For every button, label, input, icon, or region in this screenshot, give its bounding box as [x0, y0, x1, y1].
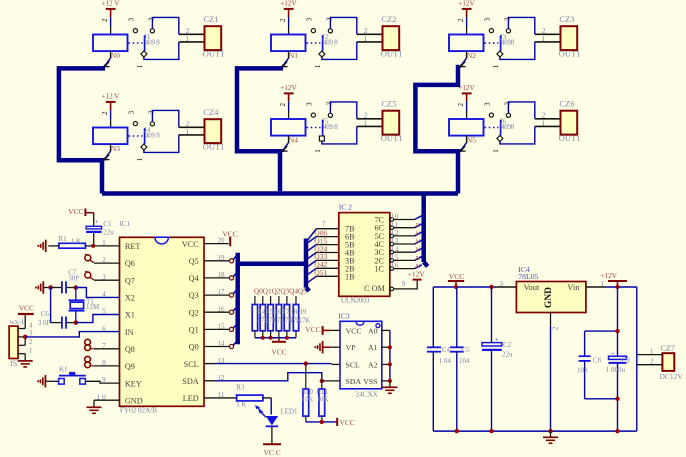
svg-text:+12V: +12V [458, 83, 475, 92]
svg-text:ULN2003: ULN2003 [341, 296, 370, 305]
svg-text:N1: N1 [289, 51, 298, 60]
svg-text:Q4: Q4 [189, 274, 199, 283]
svg-text:Q51: Q51 [314, 268, 327, 277]
svg-text:103: 103 [577, 366, 588, 374]
svg-text:GND: GND [125, 396, 143, 405]
svg-text:OUT1: OUT1 [381, 48, 403, 58]
svg-text:1: 1 [136, 157, 144, 161]
svg-text:K1: K1 [59, 365, 68, 373]
svg-text:+12V: +12V [280, 0, 297, 8]
svg-text:SDA: SDA [346, 377, 362, 386]
svg-text:OUT1: OUT1 [559, 133, 581, 143]
svg-text:C8: C8 [593, 356, 602, 364]
svg-text:+12V: +12V [280, 83, 297, 92]
svg-text:2: 2 [279, 103, 287, 107]
svg-text:C2: C2 [503, 341, 512, 349]
svg-text:VCC: VCC [346, 326, 362, 335]
svg-text:3: 3 [483, 102, 491, 106]
svg-text:VCC: VCC [68, 207, 83, 216]
svg-text:CZ5: CZ5 [381, 98, 396, 108]
svg-text:R9: R9 [298, 308, 307, 316]
svg-text:N: N [416, 230, 421, 237]
svg-text:N3: N3 [111, 144, 120, 153]
svg-text:A2: A2 [368, 360, 378, 369]
svg-text:OUT1: OUT1 [203, 141, 225, 151]
svg-text:3: 3 [127, 110, 135, 114]
svg-text:22u: 22u [103, 228, 114, 236]
svg-text:1: 1 [363, 34, 367, 43]
svg-text:1: 1 [136, 64, 144, 68]
svg-text:1 K: 1 K [71, 237, 81, 245]
svg-text:1: 1 [314, 64, 322, 68]
svg-text:N2: N2 [467, 51, 476, 60]
svg-text:1: 1 [541, 119, 545, 128]
svg-text:CZ3: CZ3 [559, 14, 574, 24]
svg-text:1: 1 [650, 348, 654, 356]
svg-text:OUT1: OUT1 [559, 48, 581, 58]
svg-text:409 8: 409 8 [323, 40, 338, 47]
svg-text:IC 2: IC 2 [339, 202, 352, 211]
svg-text:VCC: VCC [340, 418, 355, 427]
svg-text:Q0: Q0 [189, 343, 199, 352]
svg-text:RET: RET [125, 242, 140, 251]
svg-text:C4: C4 [442, 346, 451, 354]
svg-text:1B: 1B [345, 272, 355, 281]
svg-text:2: 2 [551, 326, 559, 330]
svg-text:A1: A1 [368, 343, 378, 352]
svg-text:10K: 10K [317, 396, 329, 404]
svg-text:3: 3 [305, 102, 313, 106]
svg-text:22u: 22u [502, 350, 513, 358]
svg-text:1: 1 [492, 64, 500, 68]
svg-text:10: 10 [391, 213, 399, 221]
svg-text:N: N [416, 255, 421, 262]
svg-text:N: N [416, 239, 421, 246]
svg-text:Q1: Q1 [189, 326, 199, 335]
svg-text:CZ4: CZ4 [203, 107, 219, 117]
svg-text:SCL: SCL [346, 360, 361, 369]
svg-text:N4: N4 [289, 136, 298, 145]
svg-text:VCC: VCC [305, 325, 320, 334]
svg-text:1: 1 [185, 127, 189, 136]
svg-text:IC1: IC1 [119, 220, 130, 228]
svg-text:VCC: VCC [271, 348, 286, 357]
svg-text:+: + [95, 219, 99, 226]
svg-text:1: 1 [314, 149, 322, 153]
svg-text:+: + [611, 350, 615, 357]
svg-text:14: 14 [391, 245, 399, 253]
svg-text:+12V: +12V [458, 0, 475, 8]
svg-text:wx-1: wx-1 [9, 317, 24, 326]
svg-text:R3: R3 [236, 383, 245, 391]
svg-text:1 04: 1 04 [439, 357, 452, 365]
svg-text:FY02 02A/B: FY02 02A/B [120, 406, 157, 415]
svg-text:A0: A0 [368, 326, 378, 335]
svg-text:+12 V: +12 V [101, 92, 120, 101]
svg-text:1 K: 1 K [236, 400, 246, 408]
svg-text:4098: 4098 [501, 40, 515, 47]
svg-text:9: 9 [402, 279, 406, 288]
svg-text:11: 11 [391, 221, 399, 229]
svg-text:1: 1 [363, 119, 367, 128]
svg-text:C5: C5 [462, 346, 471, 354]
svg-text:1C: 1C [374, 265, 384, 274]
svg-text:VCC: VCC [182, 240, 199, 249]
svg-text:2: 2 [650, 358, 654, 366]
svg-text:N: N [416, 247, 421, 254]
svg-text:GND: GND [544, 287, 554, 308]
svg-text:Q7: Q7 [125, 276, 135, 285]
svg-text:1: 1 [541, 34, 545, 43]
svg-text:1: 1 [29, 347, 33, 355]
svg-text:3: 3 [305, 17, 313, 21]
svg-text:CZ6: CZ6 [559, 98, 574, 108]
svg-text:78L05: 78L05 [518, 272, 538, 281]
svg-text:4098: 4098 [501, 124, 515, 131]
svg-text:3: 3 [499, 279, 503, 288]
svg-text:Q6: Q6 [125, 259, 135, 268]
svg-text:VCC: VCC [19, 303, 34, 312]
svg-text:2: 2 [101, 18, 109, 22]
svg-text:409 8: 409 8 [145, 133, 160, 140]
svg-text:2: 2 [279, 18, 287, 22]
svg-text:104: 104 [459, 357, 470, 365]
svg-text:R1: R1 [59, 235, 68, 243]
svg-text:2: 2 [457, 18, 465, 22]
svg-text:N0: N0 [111, 51, 120, 60]
svg-text:VSS: VSS [363, 377, 377, 386]
svg-text:LED1: LED1 [280, 407, 298, 415]
svg-text:+12 V: +12 V [101, 0, 120, 8]
svg-text:Q8: Q8 [125, 345, 135, 354]
svg-text:15: 15 [391, 254, 399, 262]
svg-text:+12V: +12V [601, 271, 618, 280]
svg-text:OUT1: OUT1 [381, 133, 403, 143]
svg-text:SCL: SCL [184, 360, 199, 369]
svg-text:Q5: Q5 [189, 257, 199, 266]
svg-text:Q3: Q3 [189, 291, 199, 300]
svg-text:VP: VP [346, 343, 357, 352]
svg-text:C OM: C OM [364, 284, 385, 293]
svg-text:IC3: IC3 [338, 311, 350, 320]
svg-text:3: 3 [127, 17, 135, 21]
svg-text:IN: IN [125, 328, 134, 337]
svg-text:12: 12 [391, 229, 399, 237]
svg-text:VCC: VCC [222, 229, 237, 238]
svg-text:CZ7: CZ7 [661, 344, 675, 353]
svg-text:4.7K: 4.7K [298, 318, 310, 325]
svg-text:1: 1 [601, 279, 605, 288]
svg-text:VCC: VCC [449, 272, 464, 281]
svg-text:16: 16 [391, 262, 399, 270]
svg-text:N5: N5 [467, 136, 476, 145]
svg-text:2: 2 [29, 338, 33, 346]
svg-text:3: 3 [483, 17, 491, 21]
svg-text:1: 1 [492, 149, 500, 153]
svg-text:SDA: SDA [182, 377, 198, 386]
svg-text:409 8: 409 8 [323, 124, 338, 131]
svg-text:7: 7 [322, 219, 326, 228]
svg-text:OUT1: OUT1 [203, 48, 225, 58]
svg-text:1: 1 [185, 34, 189, 43]
svg-text:Q9: Q9 [125, 362, 135, 371]
svg-text:Q0Q1Q2Q3Q4Q5: Q0Q1Q2Q3Q4Q5 [254, 287, 307, 295]
svg-text:24CXX: 24CXX [355, 390, 378, 399]
svg-text:Vout: Vout [524, 282, 541, 292]
svg-text:C6: C6 [41, 310, 50, 318]
svg-text:2: 2 [457, 103, 465, 107]
svg-text:4: 4 [29, 321, 33, 329]
svg-text:JS: JS [10, 359, 18, 368]
svg-text:CZ2: CZ2 [381, 14, 396, 24]
svg-text:13: 13 [391, 237, 399, 245]
svg-text:3 0P: 3 0P [38, 319, 51, 327]
svg-text:30P: 30P [68, 274, 79, 282]
svg-text:N: N [416, 222, 421, 229]
svg-text:Q2: Q2 [189, 308, 199, 317]
svg-text:1 000u: 1 000u [606, 366, 626, 374]
svg-text:R8: R8 [289, 308, 298, 316]
svg-text:LED: LED [183, 394, 199, 403]
svg-text:KEY: KEY [125, 379, 142, 388]
svg-text:DC12V: DC12V [660, 372, 684, 381]
svg-text:C9: C9 [622, 356, 631, 364]
svg-text:X1: X1 [125, 311, 135, 320]
svg-text:12M: 12M [86, 303, 100, 311]
svg-text:2: 2 [101, 111, 109, 115]
svg-text:C1: C1 [103, 220, 112, 228]
svg-text:1 0K: 1 0K [301, 396, 313, 404]
svg-text:+: + [495, 337, 499, 344]
svg-text:VC C: VC C [264, 448, 281, 457]
svg-text:X2: X2 [125, 294, 135, 303]
svg-text:409 8: 409 8 [145, 40, 160, 47]
svg-text:Vin: Vin [567, 282, 580, 292]
svg-text:CZ1: CZ1 [203, 14, 218, 24]
svg-text:+12V: +12V [408, 269, 426, 278]
